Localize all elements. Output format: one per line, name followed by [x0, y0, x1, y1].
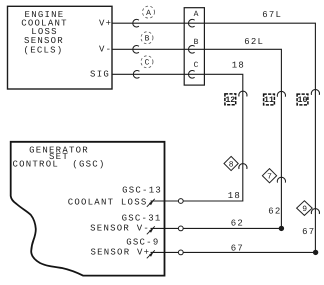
svg-text:SENSOR V+: SENSOR V+ — [90, 248, 150, 258]
svg-text:A: A — [194, 10, 199, 19]
wire V+ / 67L : ECLS V+ to junction on wire 67 — [112, 23, 315, 252]
socket contact on wire V- at x136 — [133, 45, 139, 53]
svg-text:8: 8 — [229, 160, 234, 169]
junction dot wire 62 — [279, 226, 284, 231]
svg-text:18: 18 — [232, 61, 245, 71]
socket contact on wire V+ at x136 — [133, 19, 139, 27]
svg-text:67: 67 — [302, 227, 315, 237]
svg-text:A: A — [146, 9, 151, 18]
contact arc on vertical 18 wire (row 12) — [239, 91, 247, 96]
svg-text:10: 10 — [298, 96, 308, 105]
contact arc on vertical 62 wire (row 7) — [277, 177, 285, 182]
diamond connector 8 — [224, 156, 238, 170]
svg-text:V-: V- — [99, 45, 112, 55]
svg-text:12: 12 — [225, 96, 235, 105]
contact arc on vertical 62L wire (row 11) — [277, 91, 285, 96]
square connector 10 — [297, 94, 308, 105]
box U1 ENGINE COOLANT LOSS SENSOR (ECLS) — [8, 6, 113, 89]
pin arrow GSC-31 — [147, 226, 155, 234]
svg-text:67L: 67L — [262, 10, 282, 20]
connector block J1 — [184, 8, 204, 85]
svg-text:67: 67 — [231, 244, 244, 254]
svg-text:COOLANT LOSS: COOLANT LOSS — [68, 198, 148, 208]
pin contact C in block — [188, 71, 194, 79]
splice circle on wire 62 — [178, 226, 183, 231]
svg-text:7: 7 — [267, 173, 272, 182]
splice circle on wire 67 — [178, 250, 183, 255]
junction dot wire 67 — [313, 250, 318, 255]
connector circle C — [141, 56, 153, 68]
diamond connector 7 — [262, 169, 276, 183]
box U2 GENERATOR SET CONTROL (GSC) — [11, 142, 165, 276]
wire 62 : GSC-31 to junction — [151, 227, 282, 229]
pin contact A in block — [188, 19, 194, 27]
connector circle A — [143, 6, 155, 18]
svg-text:(ECLS): (ECLS) — [24, 46, 64, 56]
svg-text:GSC-9: GSC-9 — [126, 238, 159, 248]
wire 67 : GSC-9 to junction — [151, 251, 316, 253]
svg-text:11: 11 — [264, 96, 274, 105]
svg-text:18: 18 — [228, 191, 241, 201]
splice circle on wire 18 — [178, 199, 183, 204]
svg-text:V+: V+ — [99, 19, 112, 29]
svg-text:62L: 62L — [244, 37, 264, 47]
svg-text:GSC-13: GSC-13 — [122, 185, 162, 195]
svg-text:C: C — [145, 59, 150, 68]
svg-text:62: 62 — [268, 207, 281, 217]
svg-text:9: 9 — [302, 205, 307, 214]
svg-text:SIG: SIG — [90, 70, 110, 80]
svg-text:62: 62 — [231, 219, 244, 229]
square connector 12 — [225, 94, 236, 105]
square connector 11 — [264, 94, 275, 105]
svg-text:CONTROL (GSC): CONTROL (GSC) — [12, 159, 105, 169]
wire V- / 62L : ECLS V- to junction on wire 62 — [112, 49, 281, 228]
pin arrow GSC-9 — [147, 250, 155, 258]
wire SIG / 18 : ECLS SIG down to GSC-13 — [112, 74, 243, 201]
svg-text:C: C — [194, 61, 199, 70]
pin contact B in block — [188, 45, 194, 53]
svg-text:B: B — [145, 35, 150, 44]
socket contact on wire SIG at x136 — [133, 71, 139, 79]
connector circle B — [141, 32, 153, 44]
contact arc on vertical 18 wire (row 8) — [239, 164, 247, 169]
contact arc on vertical 67 wire (row 9) — [311, 209, 319, 214]
svg-text:SENSOR V-: SENSOR V- — [90, 224, 150, 234]
contact arc on vertical 67L wire (row 10) — [311, 90, 319, 95]
svg-text:GSC-31: GSC-31 — [122, 213, 162, 223]
pin arrow GSC-13 — [147, 199, 155, 207]
diamond connector 9 — [297, 201, 313, 216]
